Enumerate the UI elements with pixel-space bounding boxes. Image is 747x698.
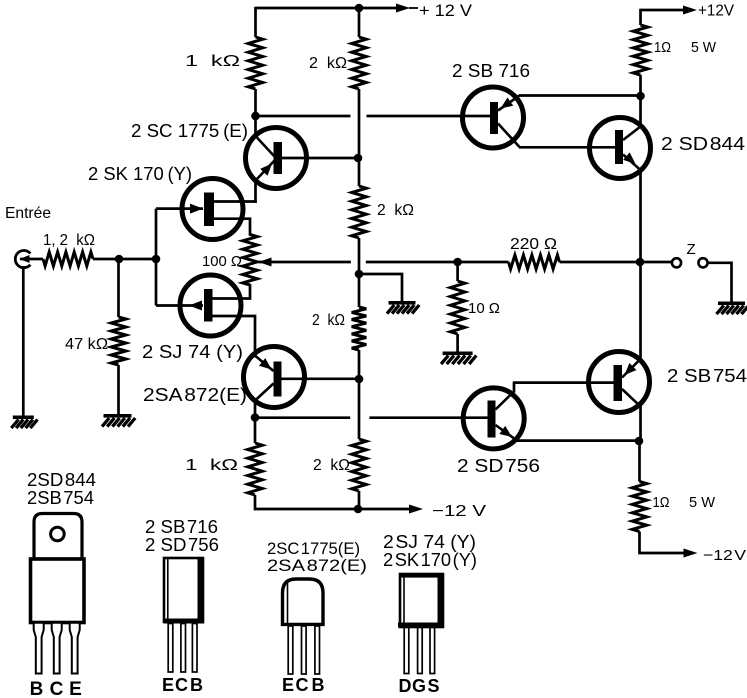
svg-text:2 kΩ: 2 kΩ xyxy=(313,457,350,474)
node dot 2SA872 base xyxy=(355,375,364,384)
svg-text:B: B xyxy=(30,679,44,698)
label 2 SC 1775(E) xyxy=(131,121,248,141)
svg-text:Entrée: Entrée xyxy=(5,205,51,222)
label 2 SJ 74 (Y) xyxy=(142,342,243,362)
node dot top rail / 2k column xyxy=(355,4,364,13)
arrowhead -12V bottom xyxy=(409,505,423,514)
resistor R 10 xyxy=(450,281,465,334)
label 1 Ohm 5W top xyxy=(654,39,717,56)
terminal Z left xyxy=(672,258,681,267)
wire mid rail right of gap xyxy=(366,261,509,264)
wire output column lower xyxy=(639,262,642,441)
svg-text:2 SJ 74 (Y): 2 SJ 74 (Y) xyxy=(383,532,476,552)
svg-text:2 kΩ: 2 kΩ xyxy=(377,202,414,219)
package pkg4 leg S xyxy=(430,628,435,674)
wire output column upper xyxy=(639,96,642,262)
label 2 SD 756 xyxy=(457,456,540,476)
label 2 SD844 xyxy=(661,134,745,154)
package TO-220 tab xyxy=(34,514,82,560)
svg-text:B: B xyxy=(312,675,325,695)
transistor Q6 2SB754 xyxy=(513,352,650,413)
node dot mid-divider xyxy=(355,270,364,279)
label 2 kOhm 3 xyxy=(312,312,345,329)
node dot 10ohm tap xyxy=(453,258,462,267)
label pkg1 2SD844 xyxy=(27,470,96,490)
wire branch to mid ground xyxy=(359,274,402,301)
resistor R 1k-top xyxy=(248,37,263,89)
label 10 Ohm xyxy=(468,300,500,317)
node dot bottom rail xyxy=(354,505,363,514)
svg-text:1Ω: 1Ω xyxy=(653,494,670,511)
package pkg3 leg E xyxy=(288,626,293,674)
wire bottom rail xyxy=(255,495,410,509)
svg-text:−12 V: −12 V xyxy=(432,503,486,520)
wire 2k-3 to 2SA872 base node xyxy=(358,350,361,439)
svg-text:C: C xyxy=(50,679,64,698)
svg-text:E: E xyxy=(162,675,174,695)
label 2 kOhm 4 xyxy=(313,457,350,474)
label Entree xyxy=(5,205,51,222)
package TO-220 body xyxy=(31,559,85,623)
svg-text:2 SK 170 (Y): 2 SK 170 (Y) xyxy=(383,550,477,570)
svg-text:+12V: +12V xyxy=(698,3,734,20)
svg-text:2 kΩ: 2 kΩ xyxy=(309,55,347,72)
package pkg2 leg C xyxy=(181,624,186,673)
label pkg4 2SJ74 xyxy=(383,532,476,552)
package pkg2 body xyxy=(164,558,204,624)
svg-text:10 Ω: 10 Ω xyxy=(468,300,500,317)
package pkg2 leg E xyxy=(168,624,173,673)
svg-text:47 kΩ: 47 kΩ xyxy=(65,336,108,353)
resistor R 2k-1 xyxy=(352,37,367,89)
svg-text:100 Ω: 100 Ω xyxy=(202,253,242,270)
svg-text:2SA 872(E): 2SA 872(E) xyxy=(267,556,367,575)
label -12 V bottom xyxy=(432,503,486,520)
label pkg1 pins B C E xyxy=(30,679,82,698)
label pkg3 2SA872 xyxy=(267,556,367,575)
label 2 kOhm 2 xyxy=(377,202,414,219)
package TO-220 leg C xyxy=(52,623,62,674)
label pkg1 2SB754 xyxy=(27,488,94,508)
transistor Q4 2SA872 xyxy=(244,347,357,419)
svg-text:2SA 872(E): 2SA 872(E) xyxy=(143,385,247,405)
label +12V top-right xyxy=(698,3,734,20)
node dot output column xyxy=(636,258,645,267)
input jack open circle xyxy=(15,251,30,268)
label Z xyxy=(687,241,696,258)
wire to 1ohm-bottom xyxy=(638,441,641,482)
wire 10ohm top xyxy=(456,262,459,281)
wire 2k-1 to base node xyxy=(358,89,361,186)
svg-text:2 SK 170 (Y): 2 SK 170 (Y) xyxy=(88,164,192,184)
wire 2k-2 to gnd node xyxy=(358,238,361,307)
ground 10ohm xyxy=(441,352,476,365)
svg-text:2SD 844: 2SD 844 xyxy=(27,470,96,490)
arrowhead +12V top-right xyxy=(683,6,697,15)
ground output xyxy=(717,302,747,315)
package pkg4 leg G xyxy=(418,628,423,674)
label pkg2 2SD756 xyxy=(145,535,219,555)
wire 1ohm to node xyxy=(639,75,642,96)
svg-text:2SB 754: 2SB 754 xyxy=(27,488,94,508)
wire -12V bottom-right xyxy=(640,532,685,554)
svg-text:−12 V: −12 V xyxy=(703,547,746,564)
package pkg3 leg C xyxy=(302,626,307,674)
input arrowhead xyxy=(20,255,30,263)
svg-text:G: G xyxy=(412,676,426,696)
node dot input-47k xyxy=(115,255,124,264)
svg-text:D: D xyxy=(399,676,412,696)
transistor Q2 2SK170 JFET xyxy=(156,179,257,240)
wire gate link vertical xyxy=(155,209,158,306)
wire mid rail left xyxy=(259,261,351,264)
svg-text:1, 2 kΩ: 1, 2 kΩ xyxy=(43,232,95,249)
wire 2SD756 base line left xyxy=(255,416,350,419)
ground mid divider xyxy=(387,301,419,314)
wire 47k top xyxy=(117,259,120,317)
label pkg4 2SK170 xyxy=(383,550,477,570)
arrowhead +12V top-left xyxy=(396,4,418,13)
label pkg4 pins D G S xyxy=(399,676,440,696)
label -12V bottom-right xyxy=(703,547,746,564)
wire 1k top column xyxy=(254,7,257,37)
wire input jack down xyxy=(22,266,25,417)
label 1 kOhm bottom xyxy=(185,457,238,474)
package pkg4 body xyxy=(398,573,444,628)
wire 2SB716 base line right xyxy=(367,115,463,118)
resistor R 1ohm-bottom xyxy=(632,482,647,532)
label 2 SB 754 xyxy=(667,366,747,386)
label + 12 V top-left xyxy=(419,1,473,20)
svg-text:C: C xyxy=(175,675,188,695)
package pkg3 leg B xyxy=(315,626,320,674)
wire +12V top-left rail xyxy=(256,7,398,10)
svg-text:220 Ω: 220 Ω xyxy=(510,236,557,253)
svg-text:2 SD 756: 2 SD 756 xyxy=(457,456,540,476)
label 47 kOhm xyxy=(65,336,108,353)
svg-text:2 SB 716: 2 SB 716 xyxy=(145,517,218,537)
arrowhead -12V bottom-right xyxy=(684,549,698,558)
resistor R 100 trimmer xyxy=(243,235,258,286)
label 2 SB 716 xyxy=(452,61,530,81)
resistor R 1ohm-top xyxy=(633,25,648,75)
node dot input-gates xyxy=(152,255,161,264)
wire +12V top-right xyxy=(641,9,684,12)
label 2 kOhm 1 xyxy=(309,55,347,72)
svg-text:2 SJ 74 (Y): 2 SJ 74 (Y) xyxy=(142,342,243,362)
wire input to R1.2k xyxy=(20,258,43,261)
wire 2k-4 to bottom rail xyxy=(358,491,361,510)
label pkg3 pins E C B xyxy=(282,675,325,695)
wire 2SB716 emitter rail xyxy=(519,94,641,97)
transistor Q5 2SD756 xyxy=(463,383,524,449)
label 1 Ohm 5W bottom xyxy=(653,494,716,511)
svg-text:S: S xyxy=(427,676,439,696)
svg-text:1 kΩ: 1 kΩ xyxy=(185,457,238,474)
wire 1ohm-top stub xyxy=(639,9,642,25)
wire 1k-bottom top xyxy=(254,418,257,444)
label 1,2 kOhm xyxy=(43,232,95,249)
svg-text:2 SB 754: 2 SB 754 xyxy=(667,366,747,386)
svg-text:1Ω: 1Ω xyxy=(654,39,671,56)
resistor R 2k-2 xyxy=(352,186,367,238)
package pkg4 leg D xyxy=(404,628,409,674)
package TO-220 leg B xyxy=(34,623,44,674)
ground input xyxy=(11,416,37,429)
package pkg2 leg B xyxy=(192,624,197,673)
svg-text:Z: Z xyxy=(687,241,696,258)
ground 47k xyxy=(102,414,135,427)
transistor Q1 2SC1775 xyxy=(246,114,357,203)
svg-text:B: B xyxy=(190,675,203,695)
svg-text:2 SC 1775 (E): 2 SC 1775 (E) xyxy=(131,121,248,141)
wire 2SB716 base line left xyxy=(256,115,351,118)
label 220 Ohm xyxy=(510,236,557,253)
svg-text:2 SD 844: 2 SD 844 xyxy=(661,134,745,154)
node dot 1k-2SB716 base xyxy=(251,112,260,121)
wire 2SD756 emitter rail xyxy=(517,439,639,442)
wire 2k top stub xyxy=(358,8,361,37)
arrowhead trimmer wiper xyxy=(259,258,272,267)
resistor R 1,2k xyxy=(43,252,93,266)
terminal Z right xyxy=(698,258,707,267)
label pkg2 pins E C B xyxy=(162,675,203,695)
label 2SA 872(E) xyxy=(143,385,247,405)
wire 1k bottom to node xyxy=(254,89,257,117)
svg-text:2 SD 756: 2 SD 756 xyxy=(145,535,219,555)
node dot 2SA872 collector xyxy=(251,413,260,422)
svg-text:2 kΩ: 2 kΩ xyxy=(312,312,345,329)
transistor Q3 2SJ74 JFET xyxy=(156,275,255,353)
label 1 kOhm top xyxy=(185,53,240,70)
node dot 2SC1775 base xyxy=(354,154,363,163)
package TO-220 leg E xyxy=(70,623,80,674)
transistor Q7 2SB716 xyxy=(462,87,524,148)
resistor R 1k-bottom xyxy=(248,443,263,495)
svg-text:5 W: 5 W xyxy=(691,39,717,56)
svg-text:C: C xyxy=(296,675,309,695)
resistor R 2k-3 xyxy=(352,307,367,350)
package pkg3 body xyxy=(283,579,324,624)
svg-text:2 SB 716: 2 SB 716 xyxy=(452,61,530,81)
node dot 2SB754 collector xyxy=(635,437,644,446)
resistor R 220 xyxy=(509,255,560,269)
svg-text:E: E xyxy=(69,679,82,698)
svg-text:+ 12 V: + 12 V xyxy=(419,1,473,20)
node dot 2SD844 collector xyxy=(636,92,645,101)
wire Z to ground xyxy=(708,263,732,302)
wire 10ohm to ground xyxy=(456,334,459,352)
resistor R 2k-4 xyxy=(352,439,367,491)
package TO-220 hole xyxy=(51,527,65,541)
wire 2SD756 base line right xyxy=(369,416,463,419)
label pkg3 2SC1775 xyxy=(267,539,360,558)
wire mid rail to out xyxy=(560,261,672,264)
label pkg2 2SB716 xyxy=(145,517,218,537)
svg-text:1 kΩ: 1 kΩ xyxy=(185,53,240,70)
label 2 SK 170 (Y) xyxy=(88,164,192,184)
label 100 Ohm xyxy=(202,253,242,270)
transistor Q8 2SD844 xyxy=(519,118,651,179)
svg-text:5 W: 5 W xyxy=(689,494,716,511)
svg-text:E: E xyxy=(282,675,294,695)
wire 47k to ground xyxy=(117,365,120,416)
resistor R 47k xyxy=(111,317,126,365)
wire R1.2k to node xyxy=(93,258,156,261)
